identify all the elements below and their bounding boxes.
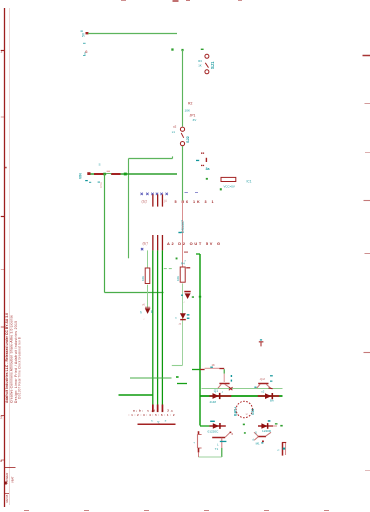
svg-text:(3(2: (3(2	[142, 200, 148, 204]
svg-text:10K: 10K	[141, 276, 145, 281]
svg-text:x:: x:	[151, 419, 154, 423]
svg-text:c:: c:	[278, 448, 280, 452]
svg-text:JP1: JP1	[190, 114, 196, 118]
svg-text:4148: 4148	[210, 400, 217, 404]
svg-text:VBAT: VBAT	[11, 476, 15, 483]
svg-text:)4: )4	[164, 199, 167, 203]
svg-text:v6: v6	[142, 303, 145, 307]
svg-text:SJ2: SJ2	[186, 136, 190, 143]
svg-text:T1: T1	[215, 447, 219, 451]
svg-text:DS1307 Real Time Clock breakou: DS1307 Real Time Clock breakout rev B	[18, 336, 22, 399]
svg-text:1K: 1K	[212, 363, 215, 367]
svg-text:VIN: VIN	[78, 173, 82, 179]
svg-text:Q1: Q1	[214, 389, 218, 393]
svg-text:h: h	[140, 311, 142, 315]
svg-text:.Q.2: .Q.2	[260, 377, 266, 381]
svg-text:BAT+: BAT+	[233, 407, 237, 416]
svg-text:SJ1: SJ1	[210, 61, 215, 69]
svg-text:VCC=5V: VCC=5V	[224, 185, 235, 189]
svg-text:1K: 1K	[198, 64, 202, 68]
svg-text:A2 D2 OUT 5V G: A2 D2 OUT 5V G	[167, 241, 220, 246]
svg-text:S: S	[255, 431, 257, 435]
svg-text:+: +	[193, 441, 195, 445]
svg-text:S: S	[99, 163, 101, 167]
svg-text:0.5A: 0.5A	[99, 182, 103, 188]
svg-text:10K: 10K	[185, 109, 191, 113]
svg-text:o2: o2	[173, 125, 177, 129]
svg-text:5V: 5V	[81, 32, 85, 37]
svg-text:x1: x1	[172, 130, 176, 134]
svg-text:DS1307: DS1307	[181, 220, 185, 233]
svg-text:G32: G32	[251, 408, 255, 415]
svg-text:R2: R2	[188, 102, 192, 106]
svg-text:.:o: .:o	[178, 322, 182, 326]
svg-text:REV.B: REV.B	[5, 494, 9, 502]
svg-text:.3: .3	[170, 409, 173, 413]
svg-text:a: a	[0, 459, 2, 463]
svg-text:IC1: IC1	[247, 180, 252, 184]
svg-text:R3: R3	[198, 59, 202, 63]
svg-text:M1: M1	[256, 441, 260, 445]
svg-text:E: E	[151, 310, 153, 314]
svg-text:(8(7: (8(7	[143, 242, 149, 246]
svg-text:x2: x2	[261, 390, 264, 394]
svg-text:.:: .:	[183, 300, 185, 304]
svg-text:Adafruit Industries LLC - Rele: Adafruit Industries LLC - Released under…	[5, 313, 9, 403]
svg-text:10K: 10K	[176, 276, 180, 281]
svg-text:.:: .:	[143, 317, 145, 321]
svg-text:01220C: 01220C	[208, 429, 220, 433]
svg-text:BA: BA	[270, 399, 274, 403]
svg-text:Creative Commons Attribution S: Creative Commons Attribution Share-Alike…	[9, 315, 13, 403]
